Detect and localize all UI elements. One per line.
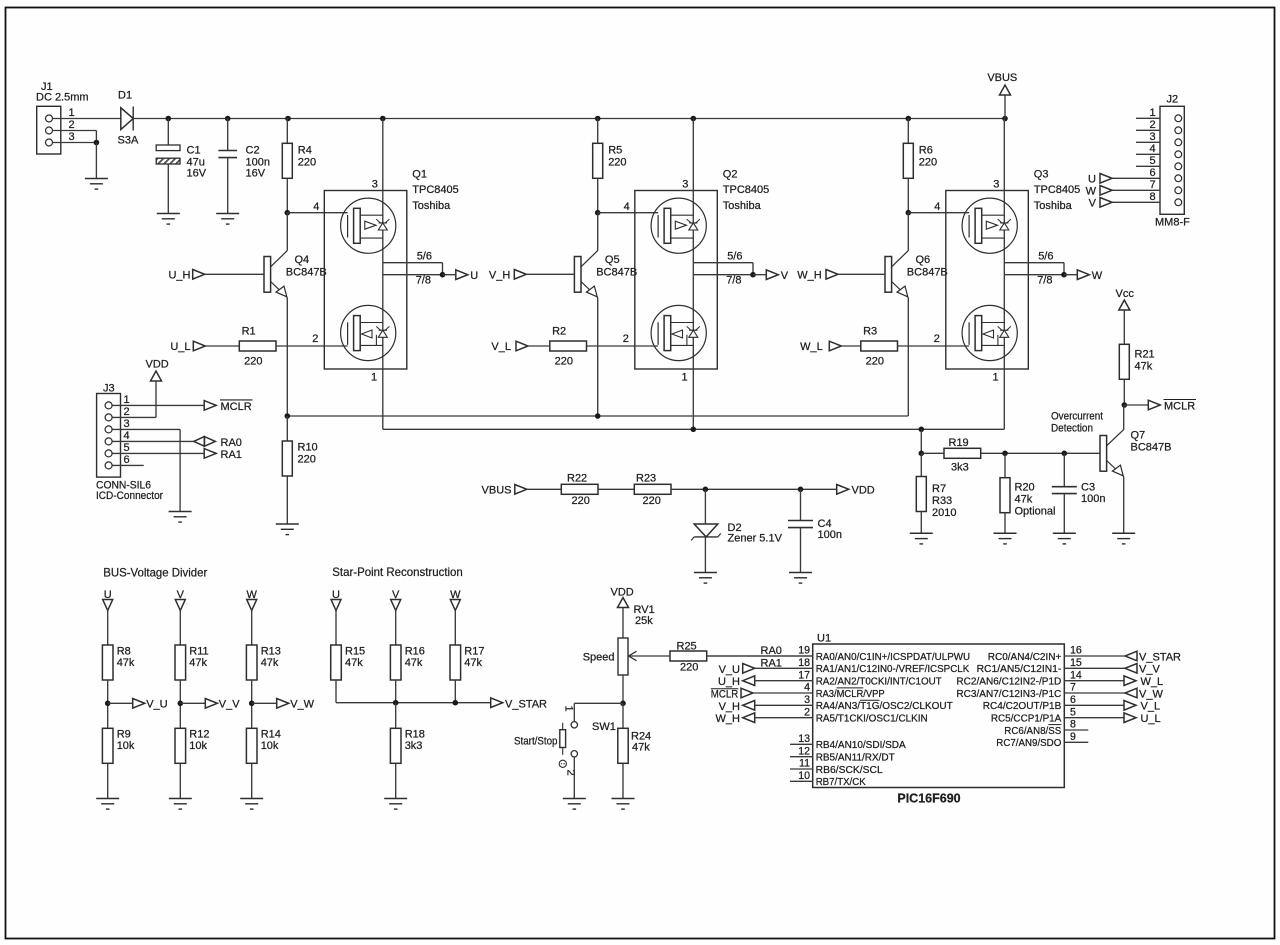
svg-text:3k3: 3k3 — [405, 740, 423, 752]
svg-text:220: 220 — [643, 495, 661, 507]
svg-text:MCLR: MCLR — [221, 401, 252, 413]
svg-text:U: U — [470, 270, 478, 282]
svg-text:4: 4 — [934, 201, 940, 213]
svg-text:Q3: Q3 — [1034, 169, 1049, 181]
svg-text:7: 7 — [1149, 179, 1155, 191]
svg-text:V_U: V_U — [146, 699, 167, 711]
svg-text:V_STAR: V_STAR — [505, 699, 547, 711]
svg-text:R9: R9 — [117, 729, 131, 741]
svg-text:BC847B: BC847B — [286, 267, 327, 279]
svg-text:3: 3 — [682, 179, 688, 191]
svg-text:RA0: RA0 — [221, 437, 242, 449]
svg-text:R1: R1 — [242, 325, 256, 337]
svg-text:5: 5 — [123, 442, 129, 454]
svg-text:R18: R18 — [405, 729, 425, 741]
svg-text:Q6: Q6 — [916, 254, 931, 266]
svg-text:Q2: Q2 — [723, 169, 738, 181]
svg-text:SW1: SW1 — [592, 721, 616, 733]
svg-text:Detection: Detection — [1051, 423, 1093, 435]
svg-text:11: 11 — [799, 758, 810, 770]
svg-text:4: 4 — [804, 682, 810, 694]
svg-text:Toshiba: Toshiba — [412, 200, 451, 212]
svg-text:18: 18 — [798, 657, 810, 669]
svg-text:R21: R21 — [1135, 349, 1155, 361]
svg-text:C3: C3 — [1081, 482, 1095, 494]
svg-text:PIC16F690: PIC16F690 — [897, 792, 960, 806]
svg-text:TPC8405: TPC8405 — [723, 184, 769, 196]
svg-text:2: 2 — [623, 333, 629, 345]
svg-text:RA0: RA0 — [761, 645, 782, 657]
svg-text:U_L: U_L — [1141, 713, 1161, 725]
svg-text:8: 8 — [1070, 719, 1076, 731]
svg-text:R12: R12 — [189, 729, 209, 741]
svg-text:BC847B: BC847B — [1131, 442, 1172, 454]
svg-text:220: 220 — [680, 662, 698, 674]
svg-text:RB4/AN10/SDI/SDA: RB4/AN10/SDI/SDA — [816, 740, 906, 751]
svg-text:R22: R22 — [567, 473, 587, 485]
svg-text:VDD: VDD — [852, 484, 875, 496]
svg-text:R17: R17 — [464, 646, 484, 658]
svg-text:2: 2 — [123, 406, 129, 418]
svg-text:RA1: RA1 — [761, 657, 782, 669]
svg-text:Toshiba: Toshiba — [1034, 200, 1073, 212]
svg-text:47k: 47k — [1015, 494, 1033, 506]
svg-text:RC6/AN8/SS: RC6/AN8/SS — [1004, 726, 1061, 737]
svg-text:100n: 100n — [1081, 493, 1105, 505]
svg-text:R15: R15 — [345, 646, 365, 658]
svg-text:R25: R25 — [677, 641, 697, 653]
svg-text:RC1/AN5/C12IN1-: RC1/AN5/C12IN1- — [977, 664, 1062, 675]
svg-text:47k: 47k — [117, 657, 135, 669]
svg-text:RA1: RA1 — [221, 449, 242, 461]
svg-text:4: 4 — [123, 430, 129, 442]
svg-text:7: 7 — [1070, 682, 1076, 694]
svg-text:BC847B: BC847B — [596, 267, 637, 279]
svg-text:RB7/TX/CK: RB7/TX/CK — [816, 777, 866, 788]
svg-text:V_U: V_U — [719, 664, 740, 676]
svg-text:R7: R7 — [932, 483, 946, 495]
svg-text:C1: C1 — [187, 145, 201, 157]
svg-text:V_W: V_W — [1139, 688, 1163, 700]
svg-text:7/8: 7/8 — [1037, 275, 1052, 287]
svg-text:Q4: Q4 — [295, 254, 310, 266]
svg-text:1: 1 — [1149, 107, 1155, 119]
svg-text:220: 220 — [572, 495, 590, 507]
svg-text:10k: 10k — [261, 740, 279, 752]
svg-text:R19: R19 — [949, 437, 969, 449]
svg-text:220: 220 — [608, 157, 626, 169]
svg-text:3: 3 — [804, 694, 810, 706]
svg-text:RA3/MCLR/VPP: RA3/MCLR/VPP — [816, 689, 885, 700]
svg-text:J3: J3 — [103, 383, 115, 395]
svg-text:MCLR: MCLR — [1164, 401, 1195, 413]
svg-text:2: 2 — [934, 333, 940, 345]
svg-text:R33: R33 — [932, 495, 952, 507]
svg-text:1: 1 — [68, 107, 74, 119]
svg-text:1: 1 — [681, 372, 687, 384]
svg-text:TPC8405: TPC8405 — [412, 184, 458, 196]
svg-text:7/8: 7/8 — [726, 275, 741, 287]
svg-text:3: 3 — [1149, 131, 1155, 143]
svg-text:W_L: W_L — [800, 341, 823, 353]
svg-text:RB6/SCK/SCL: RB6/SCK/SCL — [816, 765, 883, 776]
svg-text:J2: J2 — [1167, 94, 1179, 106]
svg-text:R11: R11 — [189, 646, 208, 658]
svg-text:R14: R14 — [261, 729, 281, 741]
svg-text:12: 12 — [798, 745, 810, 757]
svg-text:5/6: 5/6 — [1038, 250, 1053, 262]
svg-text:Q7: Q7 — [1131, 430, 1146, 442]
svg-text:25k: 25k — [635, 615, 653, 627]
svg-text:RC4/C2OUT/P1B: RC4/C2OUT/P1B — [983, 701, 1062, 712]
svg-text:5/6: 5/6 — [417, 250, 432, 262]
svg-text:ICD-Connector: ICD-Connector — [96, 490, 163, 502]
svg-text:6: 6 — [1149, 167, 1155, 179]
svg-text:RC5/CCP1/P1A: RC5/CCP1/P1A — [991, 714, 1062, 725]
svg-text:RA1/AN1/C12IN0-/VREF/ICSPCLK: RA1/AN1/C12IN0-/VREF/ICSPCLK — [816, 664, 970, 675]
svg-text:Star-Point Reconstruction: Star-Point Reconstruction — [332, 565, 463, 579]
svg-text:47k: 47k — [632, 742, 650, 754]
svg-text:2010: 2010 — [932, 507, 956, 519]
svg-text:8: 8 — [1149, 191, 1155, 203]
svg-text:47k: 47k — [189, 657, 207, 669]
svg-text:C2: C2 — [246, 145, 260, 157]
svg-text:5: 5 — [1070, 706, 1076, 718]
svg-text:2: 2 — [312, 333, 318, 345]
svg-text:R20: R20 — [1015, 482, 1035, 494]
svg-text:220: 220 — [555, 356, 573, 368]
svg-text:TPC8405: TPC8405 — [1034, 184, 1080, 196]
svg-text:47k: 47k — [405, 657, 423, 669]
svg-text:47k: 47k — [345, 657, 363, 669]
svg-text:V_V: V_V — [219, 699, 240, 711]
svg-text:220: 220 — [298, 454, 316, 466]
svg-text:6: 6 — [1070, 694, 1076, 706]
svg-text:R2: R2 — [552, 325, 566, 337]
svg-text:R5: R5 — [608, 145, 622, 157]
svg-text:RA2/AN2/T0CKI/INT/C1OUT: RA2/AN2/T0CKI/INT/C1OUT — [816, 677, 942, 688]
svg-text:W: W — [1086, 186, 1097, 198]
svg-text:U_H: U_H — [718, 676, 740, 688]
svg-text:V_L: V_L — [491, 341, 511, 353]
svg-text:W_H: W_H — [797, 269, 822, 281]
svg-text:47k: 47k — [1135, 361, 1153, 373]
svg-text:R4: R4 — [298, 145, 312, 157]
svg-text:10k: 10k — [117, 740, 135, 752]
svg-text:13: 13 — [798, 733, 810, 745]
svg-text:6: 6 — [123, 454, 129, 466]
svg-text:Vcc: Vcc — [1116, 288, 1135, 300]
svg-text:R8: R8 — [117, 646, 131, 658]
svg-text:V: V — [1089, 198, 1097, 210]
svg-text:4: 4 — [313, 201, 319, 213]
svg-text:1: 1 — [562, 705, 574, 711]
svg-text:W: W — [1092, 270, 1103, 282]
svg-text:4: 4 — [1149, 143, 1155, 155]
svg-text:W_L: W_L — [1141, 676, 1164, 688]
svg-text:19: 19 — [798, 645, 810, 657]
svg-text:Speed: Speed — [583, 652, 615, 664]
svg-text:4: 4 — [624, 201, 630, 213]
svg-text:RA5/T1CKI/OSC1/CLKIN: RA5/T1CKI/OSC1/CLKIN — [816, 714, 928, 725]
svg-text:BUS-Voltage Divider: BUS-Voltage Divider — [103, 566, 207, 580]
svg-text:BC847B: BC847B — [907, 267, 948, 279]
svg-text:220: 220 — [866, 356, 884, 368]
svg-text:16V: 16V — [246, 168, 266, 180]
svg-text:R23: R23 — [636, 473, 656, 485]
svg-text:MM8-F: MM8-F — [1155, 217, 1190, 229]
svg-text:V_H: V_H — [489, 269, 510, 281]
svg-text:RC0/AN4/C2IN+: RC0/AN4/C2IN+ — [988, 652, 1062, 663]
svg-text:RA4/AN3/T1G/OSC2/CLKOUT: RA4/AN3/T1G/OSC2/CLKOUT — [816, 701, 953, 712]
svg-text:VBUS: VBUS — [987, 72, 1017, 84]
svg-text:16V: 16V — [187, 168, 207, 180]
svg-text:1: 1 — [371, 372, 377, 384]
svg-text:220: 220 — [919, 157, 937, 169]
svg-text:DC 2.5mm: DC 2.5mm — [36, 92, 89, 104]
svg-text:V_W: V_W — [290, 699, 314, 711]
svg-text:10k: 10k — [189, 740, 207, 752]
svg-text:3: 3 — [68, 131, 74, 143]
svg-text:3: 3 — [123, 418, 129, 430]
svg-text:V_H: V_H — [719, 701, 740, 713]
svg-text:D1: D1 — [118, 90, 132, 102]
svg-text:S3A: S3A — [118, 135, 139, 147]
svg-text:VBUS: VBUS — [482, 484, 512, 496]
svg-text:2: 2 — [68, 119, 74, 131]
svg-text:1: 1 — [992, 372, 998, 384]
svg-text:U_L: U_L — [170, 341, 190, 353]
svg-text:Toshiba: Toshiba — [723, 200, 762, 212]
svg-text:RB5/AN11/RX/DT: RB5/AN11/RX/DT — [816, 753, 895, 764]
svg-text:R10: R10 — [298, 442, 318, 454]
svg-text:7/8: 7/8 — [416, 275, 431, 287]
svg-text:100n: 100n — [818, 529, 842, 541]
svg-text:V_V: V_V — [1139, 664, 1160, 676]
svg-text:RA0/AN0/C1IN+/ICSPDAT/ULPWU: RA0/AN0/C1IN+/ICSPDAT/ULPWU — [816, 652, 970, 663]
svg-text:Zener 5.1V: Zener 5.1V — [728, 533, 783, 545]
svg-text:R16: R16 — [405, 646, 425, 658]
svg-text:Overcurrent: Overcurrent — [1051, 411, 1103, 423]
svg-text:VDD: VDD — [611, 587, 634, 599]
svg-text:U1: U1 — [817, 633, 831, 645]
svg-text:V_STAR: V_STAR — [1139, 651, 1181, 663]
svg-text:Start/Stop: Start/Stop — [514, 736, 558, 748]
svg-text:3: 3 — [993, 179, 999, 191]
svg-text:220: 220 — [298, 157, 316, 169]
svg-text:RC3/AN7/C12IN3-/P1C: RC3/AN7/C12IN3-/P1C — [956, 689, 1061, 700]
svg-text:Q1: Q1 — [412, 169, 427, 181]
svg-text:15: 15 — [1070, 657, 1082, 669]
svg-text:U: U — [1088, 174, 1096, 186]
svg-text:W_H: W_H — [716, 713, 741, 725]
svg-text:17: 17 — [798, 669, 810, 681]
svg-text:R3: R3 — [863, 325, 877, 337]
svg-text:2: 2 — [1149, 119, 1155, 131]
svg-text:V: V — [781, 270, 789, 282]
svg-text:47k: 47k — [261, 657, 279, 669]
svg-text:5/6: 5/6 — [727, 250, 742, 262]
svg-text:RC2/AN6/C12IN2-/P1D: RC2/AN6/C12IN2-/P1D — [956, 677, 1061, 688]
svg-text:Q5: Q5 — [605, 254, 620, 266]
svg-text:47k: 47k — [464, 657, 482, 669]
svg-text:2: 2 — [804, 706, 810, 718]
svg-text:V_L: V_L — [1141, 701, 1161, 713]
svg-text:16: 16 — [1070, 645, 1082, 657]
svg-text:9: 9 — [1070, 731, 1076, 743]
svg-text:3: 3 — [372, 179, 378, 191]
svg-text:Optional: Optional — [1015, 506, 1056, 518]
svg-text:3k3: 3k3 — [951, 462, 969, 474]
svg-text:1: 1 — [123, 394, 129, 406]
svg-text:RC7/AN9/SDO: RC7/AN9/SDO — [996, 738, 1061, 749]
svg-text:R6: R6 — [919, 145, 933, 157]
svg-text:R13: R13 — [261, 646, 281, 658]
svg-text:MCLR: MCLR — [711, 689, 739, 701]
svg-text:U_H: U_H — [168, 269, 190, 281]
svg-text:220: 220 — [244, 356, 262, 368]
svg-text:5: 5 — [1149, 155, 1155, 167]
svg-text:VDD: VDD — [146, 359, 169, 371]
svg-text:10: 10 — [798, 770, 810, 782]
svg-text:14: 14 — [1070, 669, 1082, 681]
